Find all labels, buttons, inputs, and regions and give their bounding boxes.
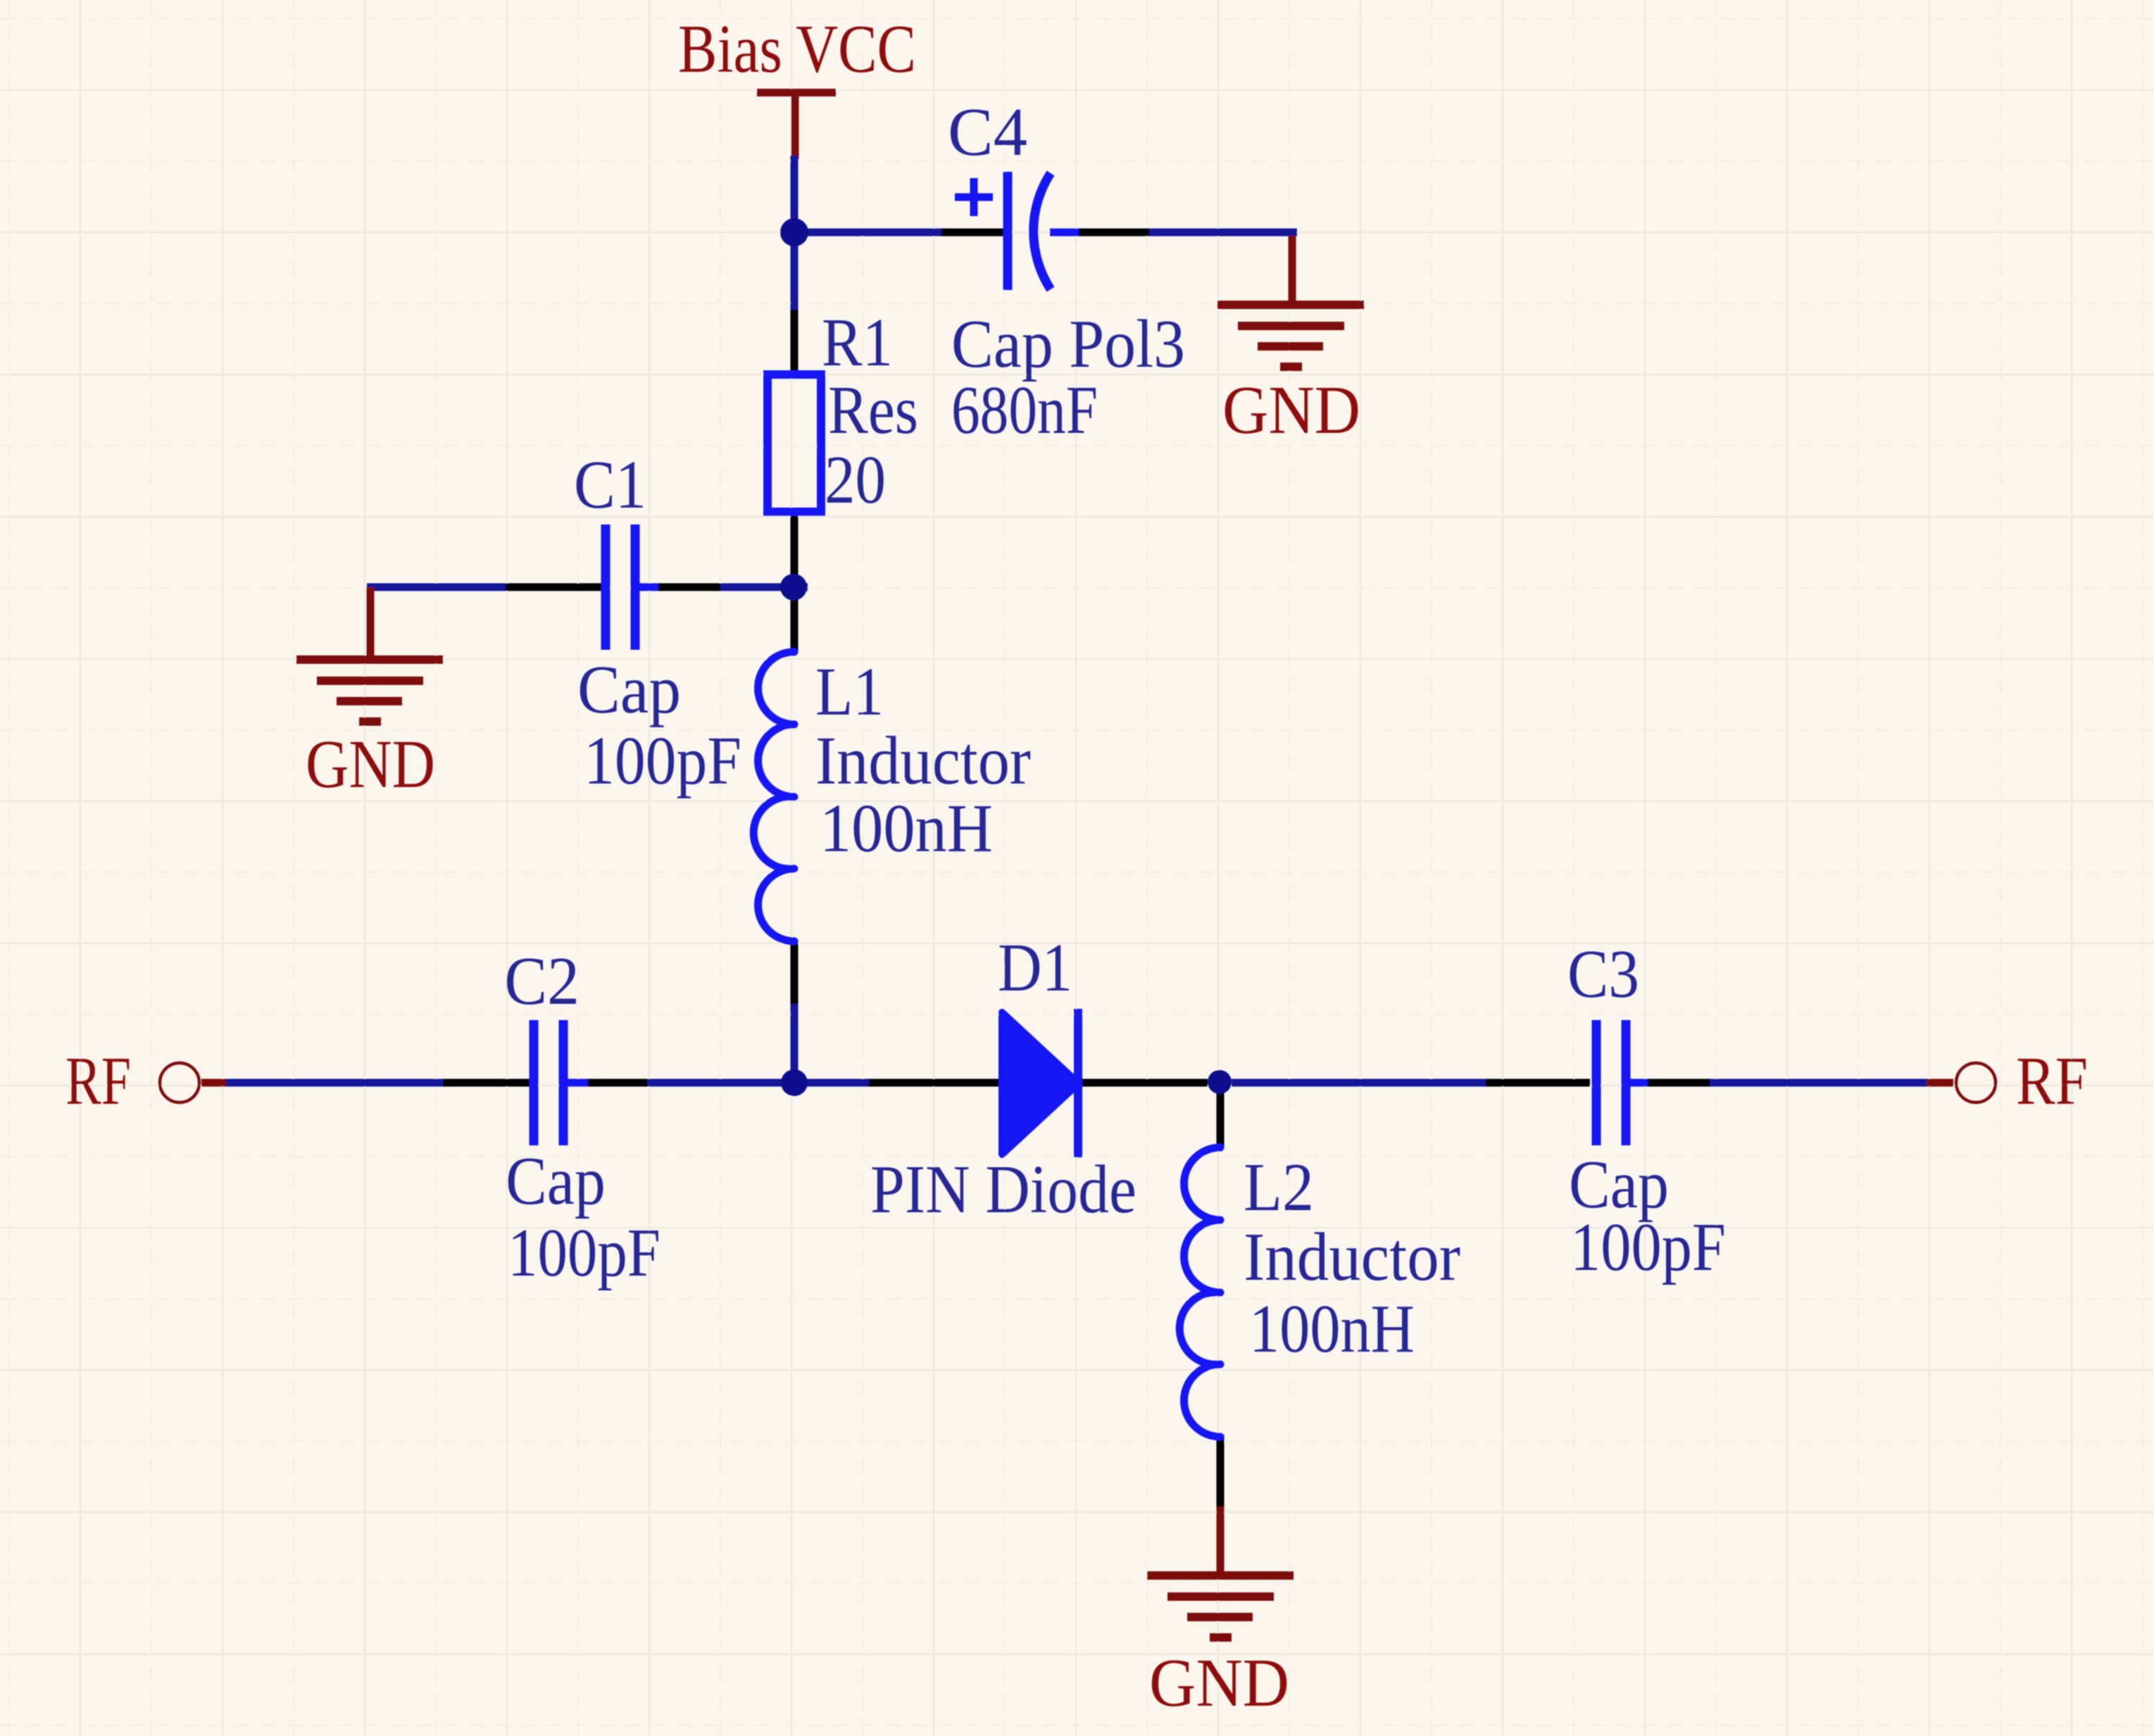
svg-text:100nH: 100nH [1249, 1291, 1415, 1367]
svg-text:100pF: 100pF [584, 723, 741, 799]
svg-text:100pF: 100pF [1570, 1209, 1726, 1285]
svg-text:Res: Res [828, 372, 918, 448]
svg-text:C2: C2 [504, 943, 580, 1019]
svg-text:C1: C1 [574, 447, 646, 523]
svg-text:GND: GND [306, 727, 435, 803]
svg-text:Bias VCC: Bias VCC [678, 11, 916, 87]
svg-text:Inductor: Inductor [815, 723, 1031, 799]
svg-text:100nH: 100nH [820, 791, 993, 867]
svg-text:R1: R1 [822, 305, 893, 381]
svg-text:D1: D1 [998, 930, 1072, 1006]
svg-text:Cap: Cap [506, 1143, 606, 1219]
svg-text:20: 20 [825, 442, 886, 518]
svg-text:GND: GND [1222, 372, 1360, 448]
svg-text:GND: GND [1149, 1645, 1289, 1721]
svg-text:RF: RF [65, 1043, 131, 1119]
svg-text:Cap Pol3: Cap Pol3 [951, 306, 1185, 382]
svg-text:100pF: 100pF [508, 1215, 660, 1291]
svg-text:PIN Diode: PIN Diode [870, 1152, 1137, 1228]
svg-text:680nF: 680nF [951, 372, 1098, 448]
svg-text:Cap: Cap [577, 652, 681, 728]
svg-text:RF: RF [2016, 1043, 2088, 1119]
svg-text:L1: L1 [815, 654, 884, 730]
svg-text:C4: C4 [948, 94, 1027, 170]
svg-text:L2: L2 [1244, 1150, 1314, 1226]
svg-text:C3: C3 [1567, 936, 1639, 1012]
svg-text:Inductor: Inductor [1244, 1219, 1460, 1295]
